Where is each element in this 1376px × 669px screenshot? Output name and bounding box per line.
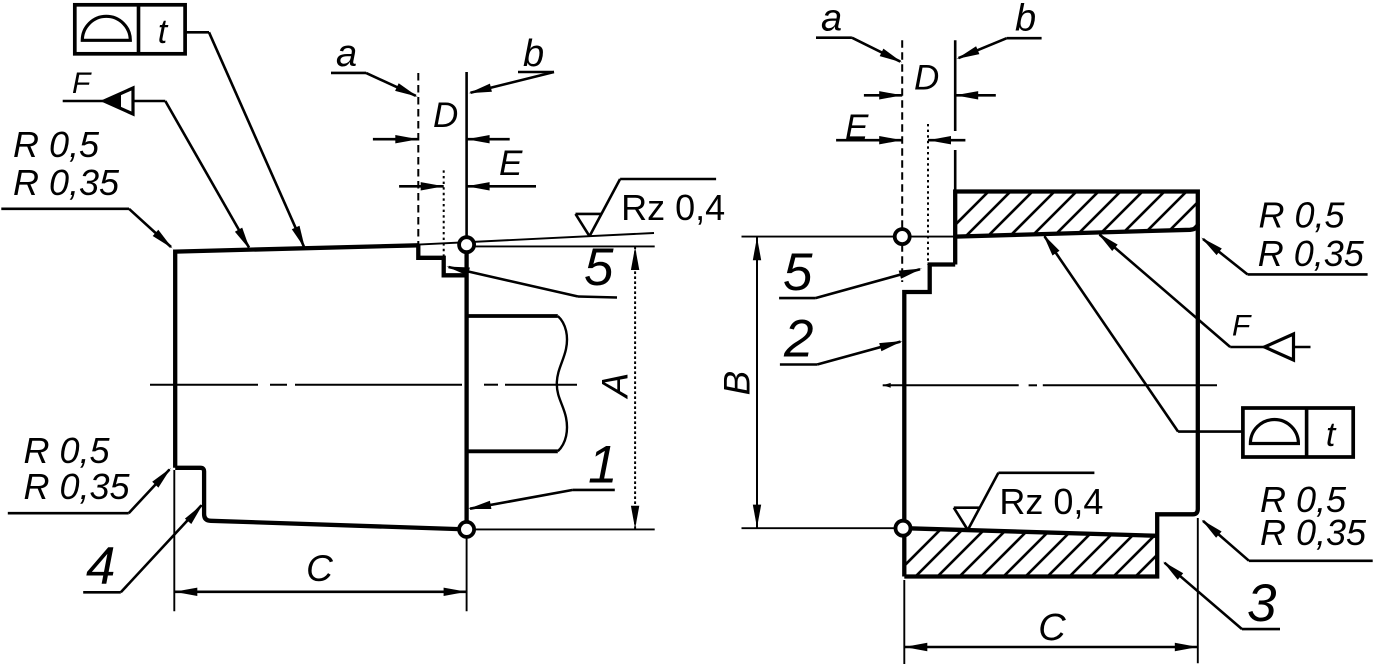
roughness Rz 0,4 (left) [576, 214, 590, 236]
extension line a (left view) [417, 73, 419, 246]
node circle top (right) [895, 229, 910, 244]
node circle top (left) [459, 237, 474, 252]
extension line b (right) [954, 40, 957, 131]
svg-text:a: a [336, 33, 357, 75]
svg-text:F: F [1232, 310, 1252, 343]
svg-text:1: 1 [588, 436, 617, 495]
A top extension line [467, 245, 655, 247]
svg-text:Rz 0,4: Rz 0,4 [621, 187, 725, 228]
A bottom extension line [467, 528, 655, 530]
svg-text:3: 3 [1247, 574, 1277, 633]
svg-text:Rz 0,4: Rz 0,4 [999, 481, 1103, 522]
F leader (right) [1100, 235, 1231, 348]
svg-text:t: t [1326, 416, 1337, 454]
tolerance frame (right) [1243, 408, 1353, 457]
svg-text:5: 5 [584, 238, 614, 297]
top surface extension slant (left) [418, 233, 654, 245]
svg-text:R 0,35: R 0,35 [24, 466, 131, 507]
left view left edge [173, 250, 177, 468]
left view right face [464, 245, 468, 530]
svg-text:B: B [717, 371, 758, 396]
left view top edge [175, 245, 418, 251]
svg-text:R 0,5: R 0,5 [24, 430, 111, 471]
dimension C (left) [173, 470, 175, 611]
svg-text:R 0,35: R 0,35 [1258, 233, 1365, 274]
svg-text:E: E [499, 144, 523, 183]
F leader (left) [165, 101, 249, 248]
left view outline [175, 245, 466, 529]
left view centerline [150, 384, 258, 386]
frame leader (right) [1178, 430, 1243, 433]
svg-text:a: a [821, 0, 842, 40]
svg-text:4: 4 [86, 537, 115, 596]
extension line mid dotted (right) [927, 124, 929, 265]
B top extension line [742, 236, 956, 238]
svg-text:R 0,35: R 0,35 [1260, 512, 1367, 553]
svg-text:R 0,35: R 0,35 [13, 162, 120, 203]
dimension C (right) [903, 580, 905, 664]
left view inner bore break-out [467, 314, 558, 318]
lower band top taper edge [904, 528, 1157, 536]
svg-text:2: 2 [783, 309, 813, 368]
frame leader (left) [185, 31, 209, 34]
svg-text:b: b [1015, 0, 1036, 40]
node circle bottom (right) [896, 521, 911, 536]
extension line b (left view) [465, 72, 468, 238]
right view centerline [890, 384, 1019, 386]
svg-text:C: C [1038, 607, 1066, 649]
B bottom extension line [742, 527, 904, 529]
dimension A [634, 246, 636, 529]
right view ring upper section outline [904, 192, 1198, 577]
tolerance frame (left) [75, 5, 185, 54]
svg-text:R 0,5: R 0,5 [1259, 194, 1346, 235]
centerline end arrow [883, 383, 891, 388]
node circle bottom (left) [459, 522, 474, 537]
svg-text:D: D [914, 58, 939, 97]
svg-text:A: A [595, 373, 636, 400]
svg-text:5: 5 [783, 243, 813, 302]
upper band bottom taper edge [955, 224, 1198, 237]
svg-text:C: C [306, 548, 333, 589]
svg-text:R 0,5: R 0,5 [13, 124, 100, 165]
svg-text:b: b [523, 33, 544, 75]
svg-text:F: F [72, 67, 92, 100]
extension line a (right) [901, 40, 903, 282]
svg-text:t: t [158, 13, 169, 51]
svg-text:D: D [433, 96, 458, 135]
break wavy line [557, 316, 567, 451]
extension line mid dotted (left view) [443, 170, 445, 257]
roughness Rz 0,4 (right) [954, 508, 968, 530]
dimension B [756, 237, 758, 529]
